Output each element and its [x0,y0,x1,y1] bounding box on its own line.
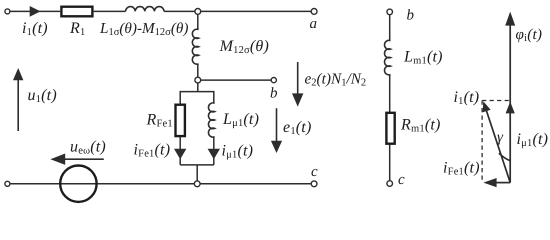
wire left branch below resistor [179,137,181,165]
arrowhead i1 phasor [483,101,491,112]
terminal c left circuit [311,181,317,187]
inductor L1s-M12s horizontal coil [126,7,164,12]
wire node N2 to terminal b [198,79,271,81]
svg-text:iμ1(t): iμ1(t) [517,131,549,149]
wire resistor to coil [94,10,126,12]
svg-text:b: b [270,86,278,102]
svg-text:i1(t): i1(t) [454,89,480,107]
terminal top-left [5,9,10,14]
svg-text:e1(t): e1(t) [283,119,311,137]
wire M12 top stub [197,13,199,29]
svg-text:c: c [398,172,405,188]
svg-text:i1(t): i1(t) [22,20,48,38]
wire parallel bottom stem [196,165,198,181]
svg-text:φi(t): φi(t) [516,26,543,44]
terminal a [311,9,317,15]
wire right branch below coil [213,137,215,165]
svg-text:R1: R1 [69,20,85,38]
wire parallel bottom bar [180,164,214,166]
svg-text:e2(t)N1/N2: e2(t)N1/N2 [305,71,367,89]
phasor diagram [486,25,511,183]
svg-text:Lm1(t): Lm1(t) [403,49,443,67]
terminal c middle [387,181,393,187]
arrowhead current i1 top-left [30,6,41,17]
svg-text:u1(t): u1(t) [28,87,57,105]
gamma angle arc [499,153,510,160]
arrowhead e2 [292,93,303,106]
node N2 [195,77,201,83]
node N1 [195,9,201,15]
terminal b middle [387,9,393,15]
resistor Rm1 [386,113,394,144]
wire top left segment [10,10,60,12]
arrowhead imu1 branch [208,149,220,160]
terminal b left [271,78,276,83]
wire parallel top stem [197,82,199,91]
e2 arrow shaft [297,62,299,95]
resistor RFe1 [176,105,185,136]
phasor axis shaft phi [509,25,511,183]
node N3 [194,181,200,187]
terminal bottom-left [5,181,10,186]
svg-text:RFe1: RFe1 [146,112,173,130]
wire middle branch resistor to c [389,145,391,181]
wire middle branch top [389,15,391,41]
inductor Lm1 coil [385,40,391,74]
svg-text:b: b [407,8,415,24]
inductor Lmu1 coil [208,103,214,137]
wire coil to terminal a [164,10,311,12]
arrowhead phi [505,12,515,26]
wire parallel top bar [180,92,214,105]
u1 arrow shaft [17,79,19,131]
phasor iFe1 shaft [496,182,511,184]
arrowhead ue left [50,154,65,165]
arrowhead iFe1 phasor [483,178,496,187]
e1 arrow shaft [276,108,278,142]
svg-text:iFe1(t): iFe1(t) [134,142,171,160]
wire middle branch coil to resistor [389,75,391,113]
ue arrow shaft [63,158,104,160]
svg-text:a: a [310,16,318,32]
svg-text:M12σ(θ): M12σ(θ) [219,38,269,56]
svg-text:L1σ(θ)-M12σ(θ): L1σ(θ)-M12σ(θ) [99,20,188,38]
dashed projection horizontal [482,100,509,102]
arrowhead e1 [271,141,282,153]
dashed projection vertical [481,101,483,181]
voltage source circle ue [60,166,96,202]
wire bottom rail [10,183,312,185]
svg-text:γ: γ [497,130,504,146]
svg-text:iFe1(t): iFe1(t) [443,160,480,178]
svg-text:iμ1(t): iμ1(t) [222,143,254,161]
arrowhead iFe1 branch [174,149,186,160]
resistor R1 [61,7,92,17]
svg-text:c: c [311,164,318,180]
arrowhead u1 [13,68,23,80]
svg-text:Rm1(t): Rm1(t) [400,117,441,135]
phasor i1 shaft [486,109,511,183]
wire M12 bottom stub [197,64,199,78]
inductor M12s vertical coil [192,29,198,64]
svg-text:Lμ1(t): Lμ1(t) [222,111,259,129]
svg-text:ueω(t): ueω(t) [70,139,106,157]
arrowhead imu1 phasor [506,102,515,114]
